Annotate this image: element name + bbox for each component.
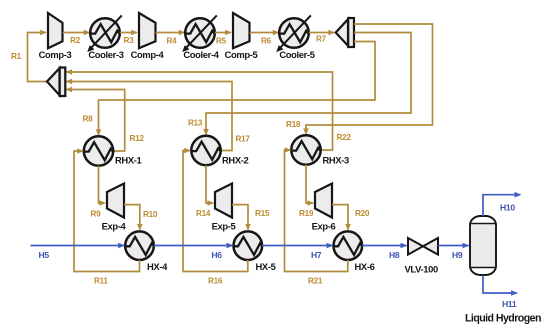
wire stream R6 (Comp-5 to Cooler-5)	[250, 30, 280, 46]
svg-text:RHX-3: RHX-3	[323, 155, 350, 166]
svg-text:HX-4: HX-4	[147, 261, 168, 272]
heat exchanger HX-6	[333, 231, 374, 272]
svg-text:R1: R1	[11, 52, 22, 61]
svg-text:Cooler-5: Cooler-5	[279, 49, 314, 60]
svg-text:RHX-2: RHX-2	[222, 155, 249, 166]
wire stream R4 (Comp-4 to Cooler-4)	[156, 30, 186, 46]
svg-text:Comp-5: Comp-5	[225, 49, 258, 60]
heat exchanger RHX-1	[84, 136, 142, 165]
svg-text:H6: H6	[211, 250, 222, 260]
svg-text:Comp-3: Comp-3	[39, 49, 72, 60]
svg-text:Exp-6: Exp-6	[312, 221, 336, 232]
wire stream R10 (Exp-4 to HX-4)	[124, 205, 158, 231]
wire stream R15 (Exp-5 to HX-5)	[232, 205, 270, 231]
svg-text:R20: R20	[355, 209, 370, 218]
wire stream R13 (splitter to RHX-2 top)	[188, 33, 411, 136]
svg-text:Liquid Hydrogen: Liquid Hydrogen	[465, 313, 541, 325]
svg-text:R22: R22	[337, 133, 352, 142]
svg-text:H5: H5	[39, 250, 50, 260]
svg-text:Cooler-3: Cooler-3	[88, 49, 123, 60]
svg-text:R17: R17	[236, 135, 251, 144]
valve VLV-100	[405, 238, 439, 275]
svg-text:H8: H8	[389, 250, 400, 260]
expander Exp-5	[212, 184, 236, 232]
svg-text:VLV-100: VLV-100	[405, 264, 438, 275]
svg-text:R14: R14	[196, 209, 211, 218]
svg-text:R15: R15	[255, 209, 270, 218]
svg-text:RHX-1: RHX-1	[115, 155, 142, 166]
vessel V-100 (Liquid Hydrogen separator)	[465, 216, 541, 325]
svg-text:R19: R19	[299, 209, 314, 218]
wire stream H5 (feed to HX-4)	[31, 243, 126, 260]
svg-text:R3: R3	[124, 36, 135, 45]
wire stream R9 (RHX-1 to Exp-4)	[91, 166, 107, 219]
svg-text:H7: H7	[311, 250, 322, 260]
wire stream H6 (HX-4 to HX-5)	[154, 243, 234, 260]
heat exchanger RHX-3	[291, 135, 349, 165]
heat exchanger RHX-2	[191, 136, 248, 166]
wire stream R19 (RHX-3 to Exp-6)	[299, 165, 314, 218]
svg-text:HX-5: HX-5	[256, 261, 276, 272]
wire stream H7 (HX-5 to HX-6)	[262, 243, 333, 260]
wire stream H11 (vessel bottom liquid out)	[483, 275, 518, 309]
svg-text:R4: R4	[167, 37, 178, 46]
compressor Comp-5	[225, 13, 258, 60]
svg-text:Exp-5: Exp-5	[212, 221, 236, 232]
wire stream H8 (HX-6 to VLV-100)	[362, 243, 407, 260]
compressor Comp-4	[131, 13, 165, 60]
wire stream H9 (VLV-100 to vessel)	[438, 243, 470, 260]
wire stream R17 (RHX-2 to mixer)	[66, 79, 251, 151]
wire stream R21 (HX-6 to RHX-3 left)	[285, 147, 348, 285]
wire stream R12 (RHX-1 to mixer)	[66, 87, 145, 151]
svg-text:R12: R12	[130, 134, 145, 143]
wire stream R3 (Cooler-3 to Comp-4)	[120, 30, 138, 45]
wire stream H10 (vessel top vapour out)	[483, 192, 522, 216]
svg-text:R6: R6	[261, 37, 272, 46]
svg-text:H10: H10	[500, 203, 515, 213]
svg-text:Comp-4: Comp-4	[131, 49, 165, 60]
wire stream R8 (splitter to RHX-1 top)	[83, 42, 376, 137]
expander Exp-4	[102, 184, 127, 232]
svg-text:R11: R11	[94, 277, 108, 286]
cooler Cooler-5	[276, 15, 315, 60]
wire stream R22 (RHX-3 to mixer)	[66, 69, 352, 150]
svg-text:Exp-4: Exp-4	[102, 221, 127, 232]
svg-text:HX-6: HX-6	[355, 261, 375, 272]
svg-text:R5: R5	[216, 37, 227, 46]
wire stream R18 (splitter to RHX-3 top)	[286, 24, 433, 135]
svg-text:R9: R9	[91, 210, 102, 219]
splitter TEE-100	[336, 18, 354, 47]
svg-text:R7: R7	[316, 35, 327, 44]
svg-text:R8: R8	[83, 115, 94, 124]
svg-text:R13: R13	[188, 119, 203, 128]
svg-text:R16: R16	[208, 277, 223, 286]
wire stream R7 (Cooler-5 to splitter)	[309, 30, 335, 44]
svg-text:R2: R2	[70, 36, 81, 45]
cooler Cooler-3	[87, 15, 124, 60]
cooler Cooler-4	[182, 15, 220, 60]
wire stream R11 (HX-4 to RHX-1 left)	[74, 148, 140, 285]
wire stream R1 (mixer to Comp-3)	[11, 30, 48, 82]
svg-text:H9: H9	[452, 250, 463, 260]
wire stream R2 (Comp-3 to Cooler-3)	[63, 30, 91, 45]
svg-text:R10: R10	[143, 210, 158, 219]
svg-text:R18: R18	[286, 120, 301, 129]
wire stream R5 (Cooler-4 to Comp-5)	[215, 30, 232, 46]
expander Exp-6	[312, 184, 336, 232]
svg-text:R21: R21	[308, 277, 323, 286]
heat exchanger HX-4	[125, 231, 168, 272]
svg-text:Cooler-4: Cooler-4	[183, 49, 219, 60]
heat exchanger HX-5	[233, 231, 275, 272]
svg-text:H11: H11	[502, 299, 517, 309]
compressor Comp-3	[39, 13, 72, 60]
wire stream R16 (HX-5 to RHX-2 left)	[183, 148, 248, 286]
mixer MIX-100	[47, 68, 65, 97]
wire stream R14 (RHX-2 to Exp-5)	[196, 165, 214, 218]
wire stream R20 (Exp-6 to HX-6)	[332, 205, 370, 231]
